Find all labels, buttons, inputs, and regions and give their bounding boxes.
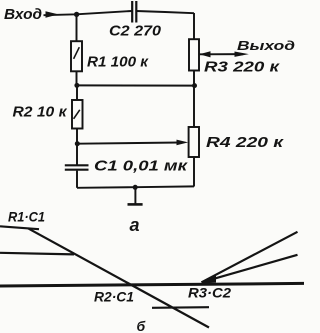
- svg-text:Вход: Вход: [4, 6, 42, 23]
- svg-text:а: а: [130, 215, 140, 235]
- svg-text:R1 100 к: R1 100 к: [87, 54, 149, 71]
- svg-text:б: б: [137, 318, 146, 333]
- svg-text:Выход: Выход: [237, 38, 295, 53]
- svg-text:R3 220 к: R3 220 к: [204, 59, 281, 76]
- svg-text:R3·С2: R3·С2: [188, 285, 231, 301]
- svg-text:С2 270: С2 270: [109, 22, 162, 39]
- svg-text:С1 0,01 мк: С1 0,01 мк: [94, 158, 189, 175]
- svg-text:R2·С1: R2·С1: [94, 289, 134, 305]
- svg-text:R1·С1: R1·С1: [8, 209, 45, 225]
- svg-text:R4 220 к: R4 220 к: [206, 134, 285, 151]
- svg-text:R2 10 к: R2 10 к: [13, 104, 68, 121]
